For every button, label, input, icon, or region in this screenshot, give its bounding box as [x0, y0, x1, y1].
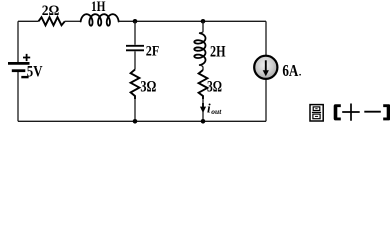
wire top left segment [18, 20, 39, 22]
current source I1 6A [254, 56, 277, 79]
svg-text:5V: 5V [27, 63, 43, 80]
resistor R1 2ohm [39, 17, 65, 25]
caption left lenticular bracket [334, 104, 341, 120]
inductor L1 1H [81, 14, 119, 26]
node bottom of inductor branch [201, 119, 206, 124]
resistor R3 3ohm [199, 70, 208, 99]
svg-text:3Ω: 3Ω [140, 79, 156, 96]
node A top of capacitor branch [133, 19, 138, 24]
wire left upper [17, 21, 19, 62]
plus sign [23, 54, 30, 61]
wire top right segment [118, 20, 266, 22]
current arrow i_out [202, 103, 204, 107]
wire node A to capacitor [134, 21, 136, 45]
inductor L2 2H [194, 33, 205, 65]
svg-text:1H: 1H [91, 0, 106, 15]
wire L2 to R3 [200, 65, 203, 70]
wire node B to L2 [200, 21, 203, 33]
battery V1 plate long [8, 62, 30, 65]
svg-text:out: out [211, 107, 222, 116]
wire right side [265, 21, 267, 121]
svg-text:6A: 6A [282, 61, 299, 80]
caption glyph ten [342, 104, 360, 121]
wire bottom [18, 120, 266, 122]
resistor R2 3ohm [131, 70, 140, 100]
wire R3 to bottom [202, 99, 204, 121]
battery V1 plate short [12, 69, 25, 72]
svg-text:2F: 2F [146, 43, 160, 59]
svg-text:3Ω: 3Ω [207, 79, 222, 96]
node B top of inductor branch [201, 19, 206, 24]
wire capacitor to R2 [134, 51, 136, 69]
arrow inside source [265, 60, 267, 71]
caption glyph tu (figure) [310, 105, 323, 121]
node bottom of capacitor branch [133, 119, 138, 124]
svg-text:2H: 2H [210, 44, 226, 61]
wire R2 to bottom [134, 99, 136, 121]
capacitor C1 2F [126, 46, 144, 51]
caption glyph one [364, 111, 381, 113]
wire between R1 and L1 [65, 20, 80, 22]
minus sign [21, 76, 28, 78]
wire left lower [17, 72, 19, 122]
svg-text:2Ω: 2Ω [42, 3, 60, 19]
caption right lenticular bracket [383, 104, 390, 120]
